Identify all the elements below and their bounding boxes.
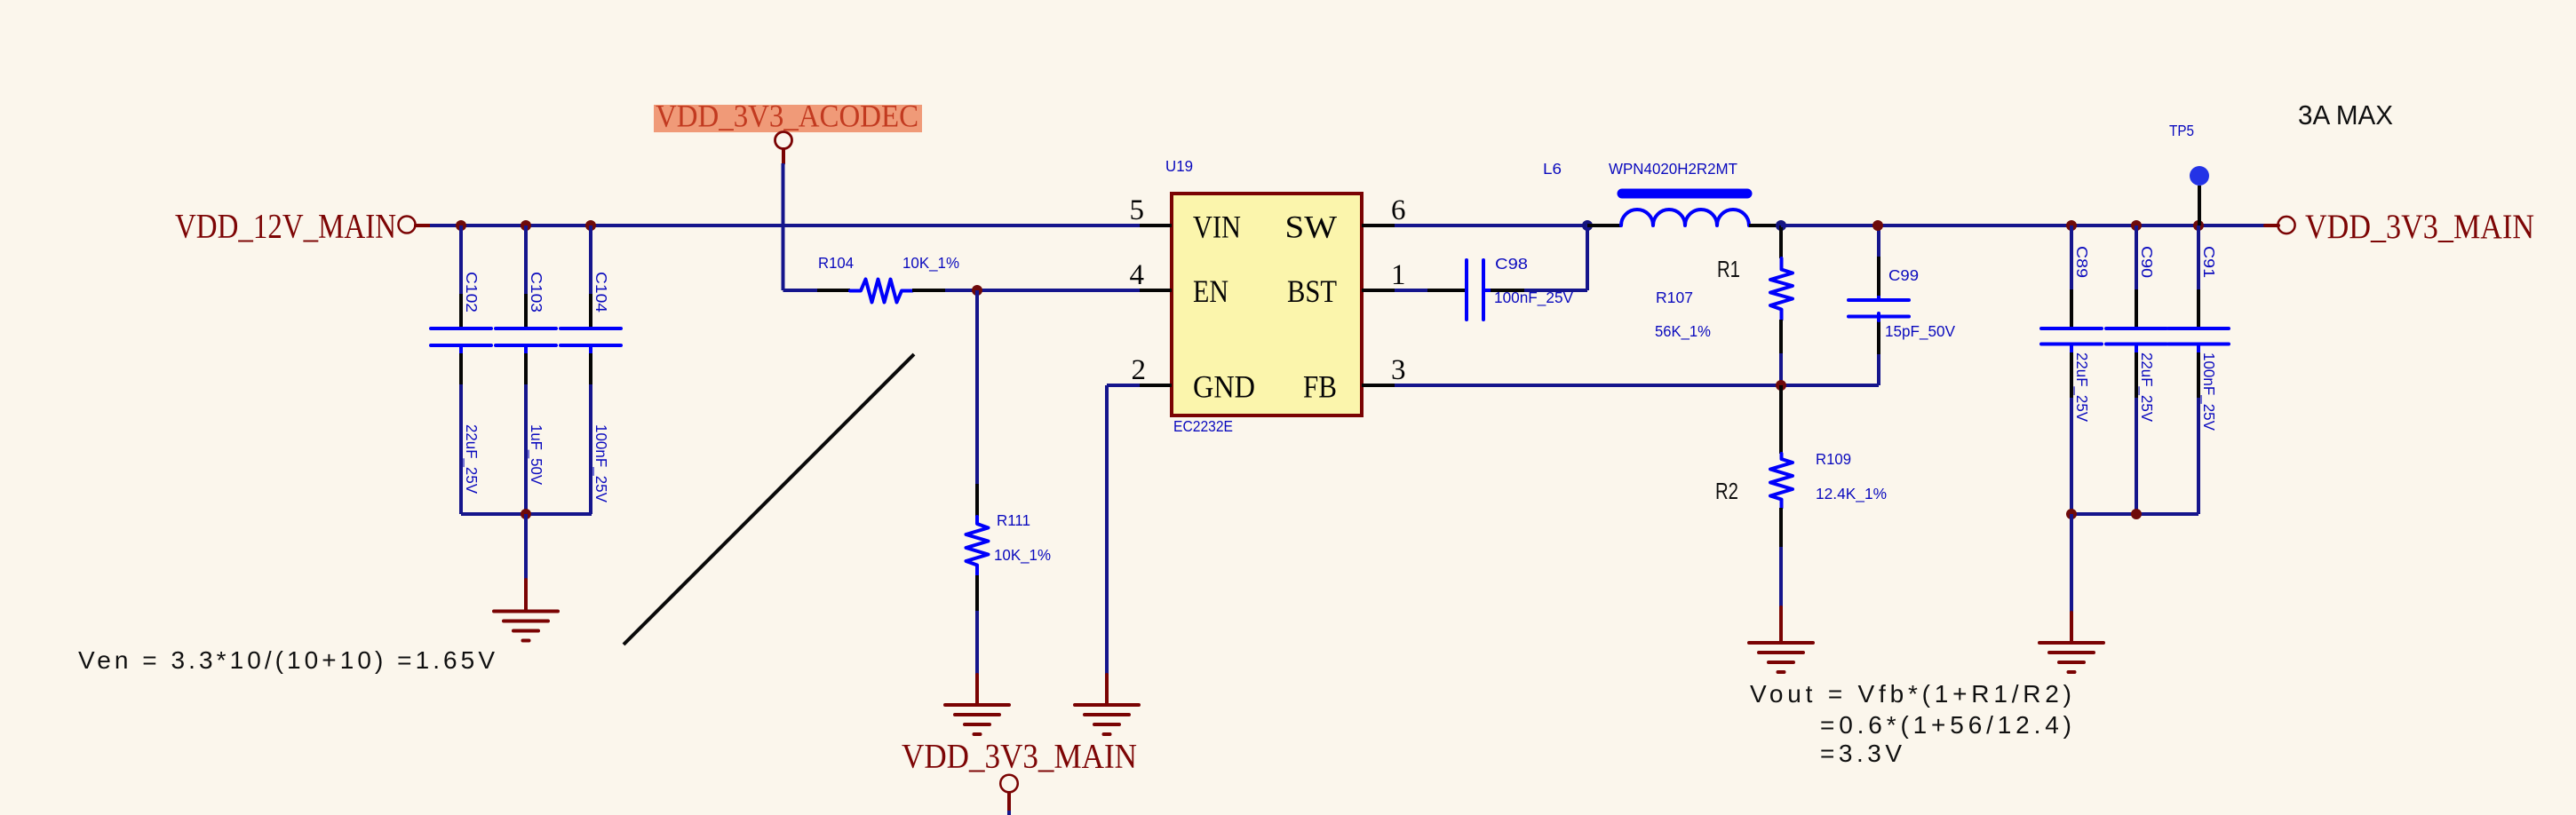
pin VIN 5 <box>1130 194 1242 245</box>
svg-text:100nF_25V: 100nF_25V <box>1494 289 1573 307</box>
svg-text:R1: R1 <box>1717 256 1740 282</box>
svg-text:C102: C102 <box>463 272 481 313</box>
svg-text:C98: C98 <box>1495 255 1528 273</box>
inductor L6 <box>1543 160 1781 226</box>
wire FB net <box>1395 384 1879 387</box>
svg-text:15pF_50V: 15pF_50V <box>1885 322 1955 341</box>
svg-text:WPN4020H2R2MT: WPN4020H2R2MT <box>1609 160 1737 178</box>
svg-text:=3.3V: =3.3V <box>1820 740 1902 767</box>
svg-text:C99: C99 <box>1888 266 1919 284</box>
resistor R104 <box>783 254 960 303</box>
svg-text:SW: SW <box>1285 210 1338 245</box>
pin EN 4 <box>1130 259 1229 309</box>
junction <box>521 509 531 519</box>
IC U19 EC2232E regulator body <box>1165 157 1362 435</box>
junction (blue) <box>1582 220 1593 231</box>
svg-text:3: 3 <box>1391 354 1406 386</box>
terminal VDD_12V_MAIN <box>399 217 431 233</box>
svg-text:22uF_25V: 22uF_25V <box>462 424 481 494</box>
svg-text:6: 6 <box>1391 194 1406 226</box>
capacitor C104 <box>561 226 621 514</box>
svg-text:EN: EN <box>1193 273 1228 309</box>
capacitor C103 <box>496 226 556 514</box>
svg-text:EC2232E: EC2232E <box>1173 417 1233 435</box>
capacitor C89 <box>2041 226 2102 514</box>
svg-text:C90: C90 <box>2138 246 2156 278</box>
terminal VDD_3V3_MAIN <box>2265 217 2295 233</box>
capacitor C90 <box>2106 226 2167 514</box>
svg-text:2: 2 <box>1132 354 1147 386</box>
svg-text:VDD_3V3_MAIN: VDD_3V3_MAIN <box>902 738 1137 776</box>
svg-text:VIN: VIN <box>1193 210 1241 245</box>
wire GND pin <box>1107 385 1140 675</box>
svg-text:L6: L6 <box>1543 160 1562 178</box>
svg-text:R2: R2 <box>1715 478 1738 504</box>
svg-text:FB: FB <box>1303 369 1337 405</box>
svg-text:10K_1%: 10K_1% <box>994 546 1051 565</box>
diagonal line <box>624 354 914 645</box>
svg-text:56K_1%: 56K_1% <box>1655 322 1711 341</box>
resistor R109 R2 <box>1715 385 1887 607</box>
pin SW 6 <box>1285 194 1406 245</box>
pin GND 2 <box>1132 354 1256 405</box>
junction <box>2131 509 2142 519</box>
svg-text:TP5: TP5 <box>2169 122 2194 139</box>
svg-text:100nF_25V: 100nF_25V <box>592 424 610 502</box>
svg-text:R104: R104 <box>818 254 854 272</box>
wire input cap bottom rail <box>461 512 592 516</box>
svg-text:3A MAX: 3A MAX <box>2298 99 2393 131</box>
resistor R107 R1 <box>1655 226 1793 385</box>
svg-text:100nF_25V: 100nF_25V <box>2199 352 2218 431</box>
svg-text:C103: C103 <box>528 272 545 313</box>
svg-text:Vout = Vfb*(1+R1/R2): Vout = Vfb*(1+R1/R2) <box>1750 680 2071 708</box>
pin BST 1 <box>1287 259 1406 309</box>
svg-text:4: 4 <box>1130 259 1145 291</box>
wire to ground <box>2070 514 2073 613</box>
svg-text:U19: U19 <box>1165 157 1193 175</box>
wire output cap bottom rail <box>2071 512 2198 516</box>
svg-text:VDD_3V3_MAIN: VDD_3V3_MAIN <box>2305 208 2534 246</box>
capacitor C91 <box>2168 226 2229 514</box>
wire EN <box>945 289 1140 292</box>
resistor R111 <box>966 290 1052 675</box>
svg-text:GND: GND <box>1193 369 1255 405</box>
ground <box>2039 613 2103 672</box>
power port VDD_3V3_MAIN bottom <box>902 738 1137 815</box>
svg-text:R109: R109 <box>1816 450 1851 468</box>
junction <box>521 220 531 231</box>
ground <box>494 580 558 641</box>
wire SW net <box>1395 224 1587 227</box>
svg-text:C91: C91 <box>2200 246 2218 278</box>
junction <box>1872 220 1883 231</box>
junction (blue) <box>1776 220 1786 231</box>
svg-text:22uF_25V: 22uF_25V <box>2137 352 2156 422</box>
wire output rail <box>1781 224 2265 227</box>
ground <box>945 675 1009 734</box>
junction <box>1776 380 1786 391</box>
pin FB 3 <box>1303 354 1406 405</box>
capacitor C98 <box>1395 255 1573 320</box>
wire 12V main rail <box>430 224 1140 227</box>
junction <box>972 285 982 296</box>
svg-text:VDD_3V3_ACODEC: VDD_3V3_ACODEC <box>656 99 918 134</box>
svg-text:R107: R107 <box>1656 289 1693 306</box>
wire to ground <box>524 514 528 580</box>
svg-text:VDD_12V_MAIN: VDD_12V_MAIN <box>175 208 396 246</box>
ground <box>1075 675 1139 734</box>
svg-text:1uF_50V: 1uF_50V <box>527 424 545 485</box>
svg-text:BST: BST <box>1287 273 1337 309</box>
junction <box>2131 220 2142 231</box>
junction <box>2066 220 2077 231</box>
capacitor C99 <box>1849 226 1955 385</box>
junction <box>585 220 596 231</box>
wire SW to BST cap <box>1524 226 1587 290</box>
ground <box>1749 607 1813 672</box>
svg-text:1: 1 <box>1391 259 1406 291</box>
junction <box>2066 509 2077 519</box>
svg-text:12.4K_1%: 12.4K_1% <box>1816 485 1887 503</box>
test point TP5 <box>2169 122 2209 226</box>
svg-text:C104: C104 <box>592 272 610 313</box>
svg-text:5: 5 <box>1130 194 1145 226</box>
wire ACODEC vertical <box>782 163 785 290</box>
junction <box>456 220 466 231</box>
svg-text:10K_1%: 10K_1% <box>902 254 959 273</box>
svg-text:C89: C89 <box>2073 246 2091 278</box>
capacitor C102 <box>431 226 491 514</box>
svg-text:R111: R111 <box>997 511 1030 529</box>
svg-text:22uF_25V: 22uF_25V <box>2072 352 2091 422</box>
junction <box>2193 220 2204 231</box>
power port VDD_3V3_ACODEC (highlighted) <box>654 99 922 164</box>
